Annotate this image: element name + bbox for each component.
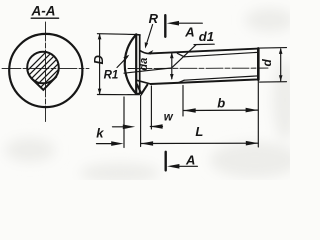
neck bottom: [137, 80, 151, 84]
d1 leader polyline: [124, 45, 196, 73]
nib V in section: [31, 77, 56, 90]
shank end face: [257, 48, 260, 79]
D extension bottom: [97, 94, 139, 96]
section plane top: bar, arrow, A: [164, 15, 166, 37]
svg-text:A-A: A-A: [31, 4, 56, 19]
k label: [96, 126, 104, 141]
shank section circle: [27, 52, 59, 84]
b dimension: [183, 109, 258, 111]
hatching: [16, 26, 72, 130]
svg-text:b: b: [217, 96, 225, 111]
w label: [164, 111, 174, 123]
extension line E6 (thread start): [182, 86, 184, 117]
horizontal centerline: [2, 67, 89, 69]
section plane bottom: bar, arrow, A: [164, 152, 166, 171]
extension line E1 (dome left): [123, 97, 125, 148]
head underside line A: [135, 34, 137, 94]
paper mottling: [5, 8, 300, 183]
svg-text:D: D: [91, 55, 106, 65]
shank bottom edge: [150, 79, 258, 84]
w arrows row: [113, 126, 127, 128]
D extension top: [97, 33, 136, 36]
d1 label + underline + leader: [199, 29, 214, 44]
head dome arc: [125, 35, 136, 94]
head bottom connector: [136, 92, 140, 94]
vertical centerline: [45, 22, 47, 122]
shank top edge: [150, 49, 258, 54]
extension line E7 (shank end): [257, 80, 259, 147]
head outer circle: [9, 34, 82, 107]
thread runout top: [177, 53, 184, 57]
R1 label + leader: [104, 70, 119, 82]
head underside line B: [139, 35, 141, 92]
label A-A: [31, 4, 56, 19]
k arrow (left outside): [97, 143, 114, 145]
svg-text:w: w: [164, 111, 174, 123]
R label + leader: [149, 11, 159, 26]
thread runout bottom: [177, 80, 184, 83]
svg-text:k: k: [96, 126, 104, 141]
thread minor bottom: [184, 76, 258, 80]
extension line E4 (shank start): [150, 86, 152, 129]
svg-text:R1: R1: [104, 70, 119, 82]
head top connector: [136, 34, 140, 36]
fillet arrowhead up-right: [148, 50, 153, 55]
svg-text:L: L: [195, 124, 203, 139]
d1 dimension double arrow: [171, 54, 173, 79]
svg-text:d: d: [260, 59, 274, 67]
svg-text:d1: d1: [199, 29, 214, 44]
bolt centerline: [128, 67, 268, 69]
svg-text:R: R: [149, 11, 159, 26]
D dimension line: [99, 34, 101, 94]
D label (rotated): [91, 55, 106, 65]
thread minor top: [184, 52, 258, 57]
svg-text:A: A: [185, 152, 195, 167]
da label (rotated): [138, 58, 150, 71]
underline of A-A: [31, 17, 58, 19]
neck fillet top: [140, 51, 151, 54]
svg-text:da: da: [138, 58, 150, 71]
d dimension right: [260, 47, 287, 50]
extension line EB (under head): [140, 96, 142, 147]
nib below (side view): [137, 84, 148, 94]
L dimension: [141, 142, 259, 144]
svg-text:A: A: [184, 25, 194, 40]
